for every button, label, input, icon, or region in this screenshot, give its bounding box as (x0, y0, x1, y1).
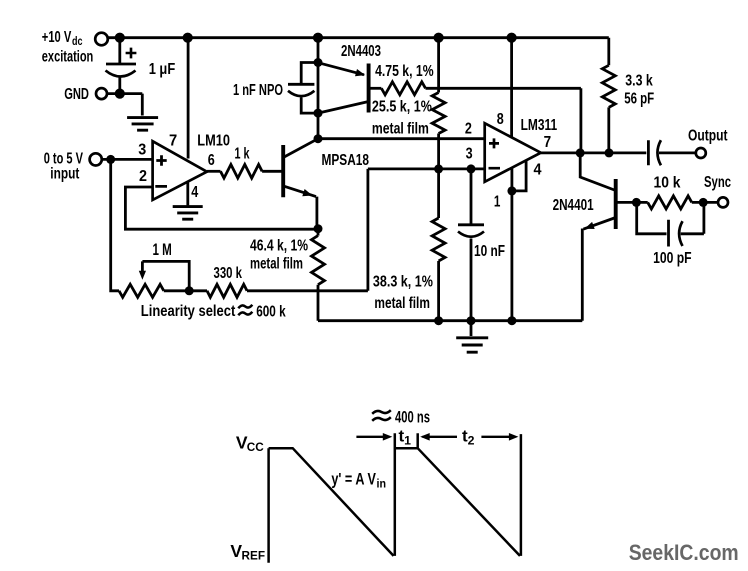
svg-text:y' = A V: y' = A V (331, 471, 376, 489)
junction output / R 3.3k (605, 148, 614, 157)
terminal +10Vdc excitation (95, 33, 108, 46)
svg-text:10 k: 10 k (654, 175, 681, 192)
junction base / R 10k / C 100pF (632, 198, 641, 207)
svg-text:excitation: excitation (42, 48, 94, 65)
wire GND to ground symbol (108, 94, 142, 116)
transistor Q2 2N4403 (367, 64, 371, 113)
svg-text:2N4403: 2N4403 (341, 43, 381, 60)
resistor 46.4 k (312, 236, 325, 285)
wire input to LM10 pin3 (102, 158, 153, 161)
wire R 3.3k leads (607, 38, 610, 153)
arrow t1 measure (356, 436, 389, 438)
svg-text:4.75 k, 1%: 4.75 k, 1% (375, 63, 434, 80)
wire 330k riser to LM311 pin3 (247, 169, 485, 291)
svg-text:Linearity select: Linearity select (141, 303, 236, 320)
svg-text:Sync: Sync (704, 174, 731, 191)
svg-text:6: 6 (208, 152, 215, 169)
potentiometer 1 M (119, 284, 164, 297)
resistor 330 k (207, 284, 247, 297)
junction bottom line / LM311 pin1 (507, 316, 516, 325)
transistor Q1 MPSA18 (281, 145, 285, 197)
svg-text:GND: GND (64, 86, 89, 103)
capacitor 10 nF (458, 169, 484, 321)
wire LM311 output (541, 151, 647, 154)
resistor 1 k (221, 165, 263, 179)
junction MPSA18 emitter / R 46.4k (314, 224, 323, 233)
junction bottom line / ground (467, 316, 476, 325)
svg-text:t1: t1 (399, 427, 412, 448)
junction rail / 2N4403 node (313, 33, 323, 43)
wire R 25.5k to pin3 line (437, 134, 440, 169)
svg-text:2N4401: 2N4401 (553, 197, 594, 214)
wire LM10 pin2 feedback (125, 187, 318, 229)
junction R 10k / C 100pF / Sync (699, 198, 708, 207)
terminal GND (96, 88, 107, 99)
capacitor C2 1 nF NPO (288, 63, 318, 114)
svg-text:330 k: 330 k (214, 265, 243, 282)
svg-text:input: input (50, 165, 79, 182)
resistor 3.3 k 56 pF (602, 65, 615, 107)
svg-text:1 nF NPO: 1 nF NPO (233, 82, 283, 99)
wire to R 46.4k (317, 229, 320, 236)
wire LM311 pin 8 supply (510, 38, 513, 138)
svg-text:1 μF: 1 μF (149, 61, 176, 78)
svg-text:3.3 k: 3.3 k (625, 72, 653, 89)
wire 2N4403 emitter-collector node vertical (317, 38, 320, 139)
wire LM10 out to R 1k (207, 170, 221, 173)
svg-text:LM311: LM311 (521, 117, 558, 134)
svg-text:56 pF: 56 pF (624, 90, 654, 107)
svg-text:LM10: LM10 (197, 132, 230, 149)
svg-text:4: 4 (191, 184, 198, 201)
junction pin1 pin4 (507, 186, 516, 195)
arrow t2 measure (481, 436, 515, 438)
svg-text:3: 3 (138, 142, 146, 159)
wire R 1k to Q MPSA18 base (262, 170, 283, 173)
junction output / 2N4401 collector (576, 148, 585, 157)
capacitor 100 pF (637, 202, 704, 246)
symbol approx 600k (238, 305, 252, 316)
junction pin3 line / C 10nF (467, 164, 476, 173)
svg-text:SeekIC.com: SeekIC.com (629, 540, 739, 565)
svg-text:metal film: metal film (374, 295, 430, 312)
ground symbol left (127, 118, 158, 131)
svg-text:in: in (377, 477, 387, 491)
junction input node (106, 155, 115, 164)
svg-text:3: 3 (466, 145, 473, 162)
junction MPSA18 collector / LM311 pin2 line (314, 134, 323, 143)
svg-text:600 k: 600 k (256, 304, 286, 321)
wire 2N4401 base (616, 201, 637, 204)
svg-text:REF: REF (242, 548, 266, 562)
resistor 25.5 k (432, 93, 445, 134)
wire rail to R 25.5k (437, 38, 440, 93)
junction GND / C1 minus (115, 89, 125, 99)
svg-text:25.5 k, 1%: 25.5 k, 1% (372, 98, 432, 115)
ground symbol middle (456, 338, 488, 352)
svg-text:dc: dc (72, 36, 83, 48)
junction 2N4403 emitter / C 1nF top (314, 58, 323, 67)
svg-text:1: 1 (494, 194, 501, 211)
svg-text:2: 2 (465, 120, 472, 137)
capacitor output coupling (648, 140, 696, 165)
svg-text:2: 2 (139, 168, 147, 185)
wire R 38.3k to bottom line (437, 261, 440, 321)
wire node to LM311 pin 2 (318, 137, 485, 140)
wire LM311 pin 1 down (510, 168, 513, 321)
junction pot wiper (185, 286, 194, 295)
wire 2N4403 base to R 4.75k (369, 87, 382, 90)
svg-text:10 nF: 10 nF (474, 243, 505, 260)
wire pin3 line to R 38.3k (437, 169, 440, 218)
comparator U2 LM311 (485, 123, 541, 182)
waveform sawtooth trace (269, 433, 521, 556)
terminal input (90, 153, 102, 165)
svg-text:38.3 k, 1%: 38.3 k, 1% (373, 274, 433, 291)
symbol approx 400ns (372, 410, 391, 421)
svg-text:1 M: 1 M (153, 241, 172, 259)
wire pot to R 330k (164, 289, 207, 292)
wire R4.75k to output node feedback (426, 88, 581, 153)
junction 2N4403 collector / C 1nF bottom (314, 109, 323, 118)
junction top rail / C1 (115, 33, 125, 43)
wire LM10 pin 7 supply (187, 38, 190, 159)
ground symbol LM10 (173, 207, 203, 220)
svg-text:46.4 k, 1%: 46.4 k, 1% (250, 237, 308, 254)
svg-text:Output: Output (688, 127, 728, 144)
svg-text:t2: t2 (462, 427, 475, 448)
junction rail / LM311 pin 8 (507, 33, 517, 43)
wire R 10k leads (636, 201, 718, 204)
wire input node down to pot (111, 159, 119, 290)
wire LM311 pin 4 (512, 160, 526, 191)
svg-text:metal film: metal film (372, 120, 429, 137)
wire to ground symbol middle (470, 321, 473, 336)
op-amp U1 LM10 (153, 141, 207, 200)
resistor 4.75 k (381, 82, 425, 95)
resistor 10 k (648, 196, 692, 209)
wire top +10V rail (108, 36, 609, 39)
wire LM10 pin 4 to ground (186, 182, 189, 206)
svg-text:100 pF: 100 pF (653, 250, 692, 267)
junction rail / LM10 pin7 (183, 33, 193, 43)
svg-text:4: 4 (534, 161, 542, 178)
svg-text:7: 7 (169, 133, 177, 150)
capacitor C1 1uF (106, 38, 136, 94)
junction pin3 line / R 38.3k (434, 164, 443, 173)
transistor Q3 2N4401 (614, 179, 618, 229)
terminal Sync (718, 197, 728, 207)
svg-text:+10 V: +10 V (42, 29, 72, 46)
junction rail / R 25.5k (434, 33, 444, 43)
svg-text:1 k: 1 k (235, 145, 250, 162)
waveform axis Vcc/Vref (267, 448, 270, 563)
svg-text:400 ns: 400 ns (395, 408, 430, 427)
svg-text:MPSA18: MPSA18 (322, 152, 370, 169)
resistor 38.3 k (432, 218, 445, 261)
junction bottom line / R 38.3k (434, 316, 443, 325)
svg-text:7: 7 (544, 134, 552, 151)
svg-text:CC: CC (247, 440, 264, 454)
terminal Output (696, 148, 706, 158)
svg-text:metal film: metal film (250, 256, 303, 273)
wire R46.4k bottom line (318, 285, 582, 321)
svg-text:8: 8 (497, 111, 504, 128)
